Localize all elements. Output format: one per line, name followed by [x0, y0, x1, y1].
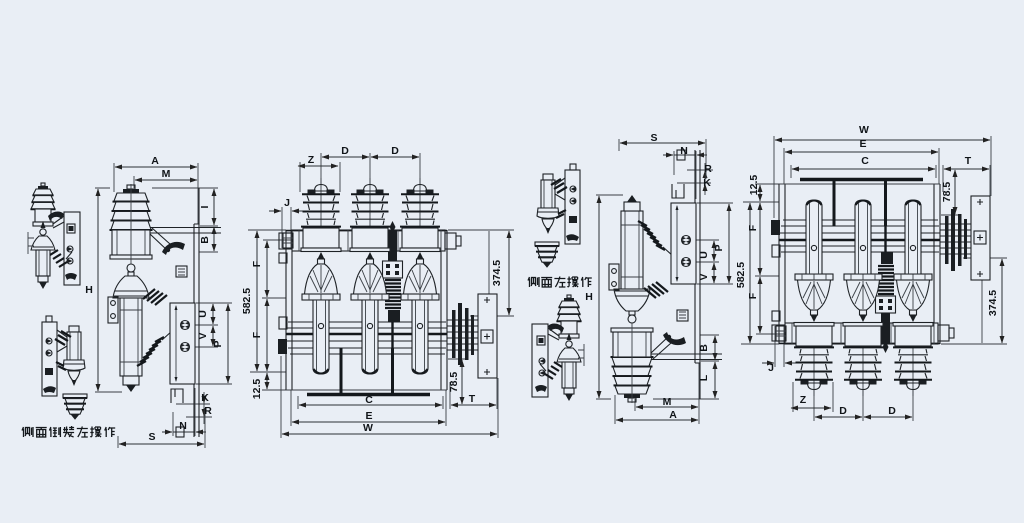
dim T line	[451, 404, 496, 406]
svg-text:D: D	[391, 145, 399, 157]
right side view (mirrored copy of left side view)	[596, 139, 733, 424]
inv insulator: base plate	[63, 394, 87, 398]
dim M extension	[133, 176, 135, 188]
frame bottom line	[286, 389, 447, 391]
dim W line	[282, 433, 497, 435]
interrupter: foot	[123, 376, 139, 385]
T-support base bar	[307, 393, 430, 396]
F/12.5 extension lines	[248, 230, 292, 390]
small interrupter: foot	[38, 276, 48, 282]
svg-text:P: P	[212, 340, 224, 347]
dim E line	[292, 421, 445, 423]
mechanism box	[170, 303, 195, 384]
svg-text:F: F	[747, 224, 759, 231]
svg-text:D: D	[341, 145, 349, 157]
left F tab	[279, 253, 287, 263]
dim A extension lines	[114, 163, 198, 224]
dim 582.5 line	[256, 231, 258, 371]
svg-text:J: J	[284, 197, 290, 209]
svg-text:N: N	[680, 145, 688, 157]
svg-text:374.5: 374.5	[987, 290, 999, 316]
right frame column	[441, 230, 447, 390]
svg-text:N: N	[179, 420, 187, 432]
dim 78.5 line	[461, 360, 463, 404]
foot block	[176, 427, 184, 437]
small insulator: base	[33, 222, 53, 226]
dim 78.5 extension	[448, 358, 468, 360]
T-support stem left	[340, 348, 343, 393]
svg-text:P: P	[713, 244, 725, 251]
left hinge ladder	[283, 233, 293, 248]
dim V line	[212, 326, 214, 346]
left frame column	[286, 230, 292, 390]
small interrupter: up arrow tip	[41, 221, 46, 228]
handle 2	[181, 343, 190, 352]
top band top edge	[286, 230, 447, 232]
bracket diagonal to lever	[150, 228, 170, 251]
plate handle 1	[67, 246, 73, 252]
caption left: 侧面倒装左操作	[22, 426, 115, 437]
svg-text:D: D	[839, 405, 847, 417]
dim W extensions	[281, 356, 498, 438]
side mechanism box	[478, 294, 497, 378]
handle 1	[181, 321, 190, 330]
top insulator: shed 4	[111, 221, 151, 230]
small spring diagonals	[55, 331, 71, 345]
plate dark foot	[43, 386, 56, 393]
left side dark block	[278, 339, 287, 354]
right front view (mirrored copy of middle front view)	[741, 136, 1007, 421]
T-support stem right	[391, 348, 394, 393]
dim C extensions	[298, 396, 443, 409]
svg-text:A: A	[669, 409, 677, 421]
small plate	[64, 212, 80, 285]
dim N line	[173, 431, 195, 433]
svg-text:M: M	[663, 396, 672, 408]
left side small bracket	[279, 317, 287, 329]
inv interrupter: top foot	[69, 326, 79, 332]
inv interrupter: cone tip	[68, 371, 80, 382]
plate handle 1	[46, 338, 52, 344]
small spring	[50, 250, 67, 267]
top insulator: shed 1	[114, 193, 148, 201]
plate dark foot	[65, 273, 77, 280]
mech collar	[388, 310, 400, 322]
shaft discs	[452, 310, 456, 358]
inner rod with arrows	[175, 306, 177, 381]
plate dark window	[45, 368, 53, 375]
band plate divisions	[299, 230, 441, 251]
dim M line	[135, 179, 197, 181]
svg-text:J: J	[768, 362, 774, 374]
insulator pole 2	[350, 178, 390, 252]
small interrupter: body	[36, 250, 50, 276]
interrupter pole 2	[351, 252, 389, 374]
links	[57, 330, 67, 352]
svg-text:582.5: 582.5	[735, 262, 747, 288]
top mounting band	[292, 230, 445, 251]
top insulator: base plate	[110, 255, 152, 259]
svg-text:S: S	[148, 431, 155, 443]
dim D line 2	[371, 156, 419, 158]
inv insulator: tip	[71, 414, 80, 420]
caption right: 侧面左操作	[528, 277, 592, 288]
svg-text:S: S	[650, 132, 657, 144]
small insulator: cap	[41, 183, 45, 186]
svg-text:R: R	[704, 163, 712, 175]
bus bars	[286, 322, 447, 354]
frame right column	[194, 188, 199, 437]
dim N extensions	[173, 388, 195, 436]
dim 374.5 extensions	[448, 230, 514, 316]
small interrupter: bell	[31, 236, 55, 250]
interrupter: top knob	[127, 264, 135, 272]
top insulator: shed 3	[112, 212, 150, 221]
small interrupter: knob	[40, 229, 46, 235]
svg-text:E: E	[365, 410, 372, 422]
interrupter pole 1	[302, 252, 340, 374]
svg-text:L: L	[698, 374, 710, 381]
svg-text:W: W	[363, 422, 373, 434]
dim S extensions	[118, 408, 205, 448]
top insulator: shed 2	[113, 202, 149, 211]
svg-text:K: K	[201, 392, 209, 404]
svg-text:W: W	[859, 124, 869, 136]
svg-text:I: I	[199, 205, 211, 208]
insulator pole 1	[301, 178, 341, 252]
mech spring coil	[385, 280, 401, 308]
spring coil (dark diagonal)	[137, 337, 164, 366]
dim 12.5 line	[266, 373, 268, 389]
svg-text:B: B	[698, 344, 710, 352]
dim E extensions	[291, 390, 446, 426]
side tick marks	[28, 232, 34, 254]
right tab bolt	[456, 236, 461, 246]
operating lever (dark)	[162, 242, 185, 255]
dim F line upper	[266, 241, 268, 297]
dim 374.5 line	[508, 231, 510, 315]
small interrupter: tip	[39, 282, 47, 289]
right band tab	[445, 233, 456, 249]
svg-text:374.5: 374.5	[491, 260, 503, 286]
nameplate	[176, 266, 187, 277]
dim U/V/P extensions	[190, 303, 232, 384]
small figure right-bottom (mirrored copy)	[532, 295, 584, 401]
inv interrupter: bell	[63, 360, 85, 370]
svg-text:F: F	[251, 260, 263, 267]
svg-text:U: U	[698, 251, 710, 259]
top insulator: body cylinder	[112, 230, 150, 255]
svg-text:T: T	[469, 393, 476, 405]
mech lower rod	[391, 322, 393, 348]
dim H extensions	[95, 188, 122, 392]
small insulator: body	[35, 209, 51, 222]
interrupter: dark tip	[126, 385, 136, 392]
shaft lines to mechanism	[447, 320, 478, 350]
mech rod upper (dark)	[388, 230, 397, 261]
plate	[42, 322, 57, 396]
svg-text:C: C	[365, 394, 373, 406]
small insulator: sheds	[33, 189, 53, 195]
interrupter pole 3	[401, 252, 439, 374]
dim K/R extension lines	[176, 392, 212, 424]
svg-text:T: T	[965, 155, 972, 167]
dim T extensions	[450, 378, 497, 409]
insulator pole 3	[400, 178, 440, 252]
svg-text:582.5: 582.5	[241, 288, 253, 314]
dim Z extensions	[300, 162, 340, 192]
top insulator: cap	[127, 185, 135, 189]
svg-text:12.5: 12.5	[251, 379, 263, 400]
left bracket with bolts	[108, 297, 118, 323]
svg-text:V: V	[698, 273, 710, 280]
spring link rod	[162, 331, 172, 340]
U-bracket below box	[171, 389, 183, 403]
svg-text:E: E	[859, 138, 866, 150]
dim R arrow	[203, 408, 205, 416]
dim C line	[299, 404, 442, 406]
dim B line	[213, 227, 215, 251]
svg-text:A: A	[151, 155, 159, 167]
link diagonal	[53, 216, 64, 228]
dim H line	[97, 189, 99, 391]
terminal pad diagonals	[143, 289, 167, 305]
svg-text:H: H	[585, 291, 593, 303]
rail lines to front view	[150, 228, 221, 234]
svg-text:Z: Z	[800, 394, 807, 406]
svg-text:78.5: 78.5	[941, 182, 953, 203]
dim I line	[213, 189, 215, 225]
svg-text:U: U	[197, 310, 209, 318]
left band tab	[279, 233, 292, 249]
svg-text:R: R	[204, 405, 212, 417]
inv insulator: sheds	[63, 397, 87, 399]
plate handle 2	[46, 350, 52, 356]
svg-text:B: B	[199, 236, 211, 244]
dim D extension lines	[321, 153, 420, 184]
svg-text:F: F	[747, 292, 759, 299]
dim J extensions	[282, 207, 291, 248]
centre line	[130, 184, 132, 264]
plate dark window	[67, 224, 75, 233]
dim D line 1	[322, 156, 369, 158]
svg-text:78.5: 78.5	[448, 372, 460, 393]
dim A line	[115, 166, 197, 168]
interrupter: body tube	[120, 298, 142, 376]
dim Z line	[298, 165, 338, 167]
svg-text:D: D	[888, 405, 896, 417]
cross marks	[484, 297, 490, 375]
dim S line	[119, 443, 204, 445]
dim K arrow	[203, 395, 205, 403]
dim J arrows	[269, 210, 281, 212]
interrupter: bell	[113, 276, 149, 298]
inv interrupter: body	[67, 332, 81, 360]
plate handle 2	[67, 258, 73, 264]
svg-text:K: K	[703, 177, 711, 189]
svg-text:12.5: 12.5	[748, 175, 760, 196]
mech rod top diamond	[390, 221, 396, 233]
dim N outside arrows	[162, 431, 172, 433]
svg-text:M: M	[162, 168, 171, 180]
dim B extension	[199, 251, 218, 253]
mech gear block	[383, 261, 403, 278]
svg-text:C: C	[861, 155, 869, 167]
svg-text:F: F	[251, 331, 263, 338]
small figure right-top (mirrored copy)	[535, 164, 580, 268]
svg-text:H: H	[85, 284, 93, 296]
bus bar thick	[286, 333, 447, 336]
svg-text:Z: Z	[308, 154, 315, 166]
dim U line	[212, 304, 214, 324]
dim P line	[227, 304, 229, 383]
dark lever	[48, 212, 64, 221]
dim I extensions	[152, 188, 218, 226]
svg-text:V: V	[197, 332, 209, 339]
dim F line lower	[266, 299, 268, 371]
